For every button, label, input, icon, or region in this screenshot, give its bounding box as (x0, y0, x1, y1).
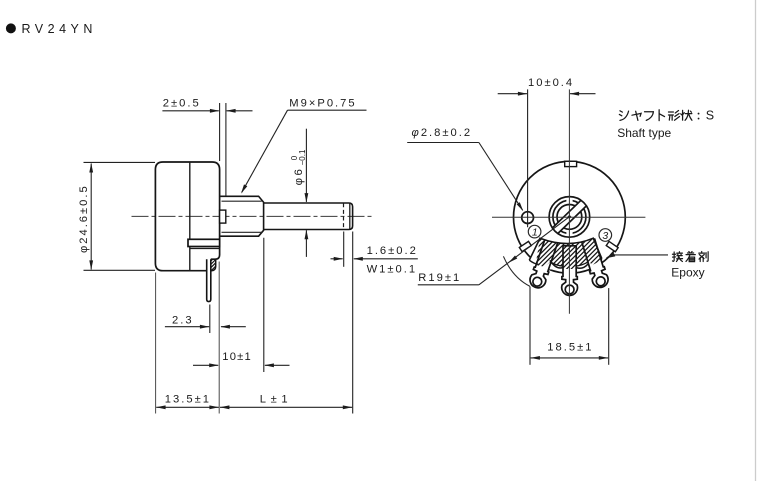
front body circle (514, 161, 626, 273)
hole phi2.8 (522, 212, 534, 224)
dim phi6 text (290, 149, 307, 185)
mounting tab band (188, 239, 220, 246)
bushing thread inner line bottom (222, 231, 262, 233)
svg-text:R19±1: R19±1 (418, 272, 461, 284)
rim mark left (519, 241, 531, 251)
dim 10 line (193, 363, 290, 367)
label phi2.8 leader (407, 143, 523, 212)
dim phi6 line upper (305, 129, 309, 203)
dim phi24.6 line (89, 163, 93, 270)
epoxy blob top outline (529, 238, 602, 260)
dim 1.6 ext lines (344, 232, 353, 414)
svg-text:M9×P0.75: M9×P0.75 (289, 97, 356, 109)
dim 10.4 line (498, 92, 596, 96)
dim 18.5 ext left (529, 287, 531, 365)
dim 10.4 ext line left (527, 89, 529, 227)
dim 2 line (162, 109, 252, 113)
dim 13.5 line (156, 405, 219, 409)
dim 2 ext lines (220, 103, 226, 196)
svg-text:10±1: 10±1 (222, 351, 252, 363)
svg-text:S: S (706, 109, 714, 123)
dim 13.5 ext line (155, 273, 157, 414)
knob middle ring (553, 200, 586, 233)
label M9xP0.75 leader (241, 110, 367, 193)
shaft end chamfer line (349, 203, 351, 229)
page right border line (755, 0, 757, 481)
top notch (565, 161, 577, 166)
epoxy blob base (529, 238, 602, 270)
svg-text:W1±0.1: W1±0.1 (367, 263, 417, 275)
terminal center ext line (209, 305, 211, 334)
terminal lug 3 (right) (580, 237, 610, 289)
label shaft type (Japanese) (619, 109, 714, 123)
svg-text:L±1: L±1 (260, 393, 292, 405)
svg-text:10±0.4: 10±0.4 (528, 77, 574, 89)
svg-text:1.6±0.2: 1.6±0.2 (367, 245, 418, 257)
tab lower line (190, 248, 220, 250)
dim 2.3 line (165, 325, 246, 329)
epoxy hatch lines (486, 228, 649, 276)
svg-text:2±0.5: 2±0.5 (163, 97, 201, 109)
circled 3 (599, 229, 612, 242)
side view centerline (132, 215, 372, 217)
shaft flat hidden line (dashed) (343, 203, 345, 229)
epoxy blob bottom edge segments (529, 259, 602, 269)
svg-text:13.5±1: 13.5±1 (165, 393, 211, 405)
svg-text:2.3: 2.3 (172, 315, 194, 327)
dim 18.5 ext right (608, 288, 610, 365)
knob outer circle (549, 197, 590, 238)
shaft slot (553, 201, 586, 233)
rim mark right (606, 241, 618, 251)
label epoxy (Japanese) (672, 252, 708, 262)
svg-text:φ2.8±0.2: φ2.8±0.2 (412, 127, 473, 139)
body/cover divide line (189, 162, 191, 271)
svg-text:RV24YN: RV24YN (22, 22, 97, 36)
svg-text:φ6: φ6 (293, 167, 305, 186)
boss box on mounting face (220, 210, 226, 223)
dim 10 ext line (263, 238, 265, 372)
terminal lug 2 (center) (562, 246, 578, 296)
long ext line at mounting face (218, 262, 220, 414)
terminal lug 1 (left) (528, 238, 559, 290)
front view vertical centerline (568, 89, 570, 313)
dim phi6 line lower (305, 230, 309, 257)
knob ring gap top (566, 198, 572, 204)
svg-text:3: 3 (602, 230, 608, 242)
front view horizontal centerline (492, 216, 645, 218)
svg-text:φ24.6±0.5: φ24.6±0.5 (78, 184, 90, 253)
dim 1.6 line (331, 257, 418, 261)
bushing thread inner line top (222, 200, 262, 202)
svg-text:1: 1 (532, 227, 538, 239)
title bullet (6, 23, 16, 33)
svg-text:Shaft type: Shaft type (617, 126, 671, 140)
R19 arc (503, 256, 530, 286)
svg-text:18.5±1: 18.5±1 (547, 341, 593, 353)
svg-text:−0.1: −0.1 (298, 149, 307, 165)
threaded bushing M9 (220, 196, 263, 236)
dim phi24.6 text (78, 184, 90, 253)
epoxy inner scallop edges (550, 262, 588, 266)
white mask above blob (536, 224, 597, 244)
potentiometer body (side view) (155, 162, 219, 271)
dim 18.5 line (530, 356, 608, 360)
dim phi24.6 ext lines (84, 162, 156, 270)
label epoxy leader (606, 253, 668, 258)
svg-text:Epoxy: Epoxy (671, 266, 704, 280)
circled 1 (528, 225, 541, 238)
dim L line (220, 405, 352, 409)
side terminal lug (207, 259, 211, 301)
shaft (6mm) (264, 203, 353, 230)
knob ring gap bottom (566, 231, 572, 237)
knob inner circle (557, 205, 582, 230)
center dot (567, 215, 571, 219)
R19 leader line (418, 217, 570, 285)
side epoxy hatch piece (190, 256, 242, 272)
